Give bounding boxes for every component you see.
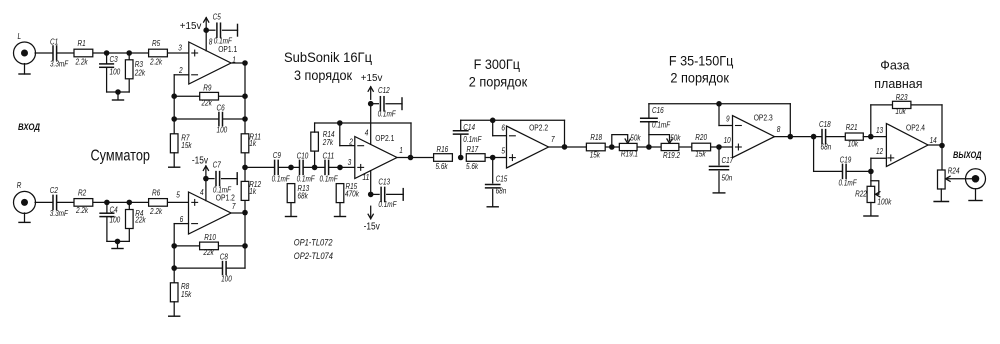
svg-text:2 порядок: 2 порядок [670,70,729,86]
svg-text:10k: 10k [848,140,859,149]
svg-text:22k: 22k [135,216,147,225]
svg-text:OP1-TL072: OP1-TL072 [294,238,333,248]
svg-text:15k: 15k [181,141,192,150]
svg-text:2 порядок: 2 порядок [469,73,528,89]
svg-text:C3: C3 [110,55,119,64]
svg-text:0.1mF: 0.1mF [378,200,397,209]
svg-text:F 35-150Гц: F 35-150Гц [669,53,733,69]
svg-text:0.1mF: 0.1mF [463,135,482,144]
svg-text:100: 100 [217,125,228,134]
svg-text:1k: 1k [249,187,257,196]
svg-text:68n: 68n [821,142,832,151]
svg-text:R: R [17,181,22,190]
svg-text:C17: C17 [722,156,734,165]
svg-text:15k: 15k [181,290,192,299]
svg-text:R5: R5 [152,39,161,48]
svg-text:OP2.3: OP2.3 [754,113,773,122]
svg-text:22k: 22k [134,69,146,78]
svg-text:6: 6 [501,124,505,133]
svg-text:2.2k: 2.2k [75,58,89,67]
svg-text:C14: C14 [463,123,475,132]
svg-text:5.6k: 5.6k [436,162,449,171]
svg-text:C16: C16 [652,106,664,115]
svg-text:0.1mF: 0.1mF [297,174,316,183]
svg-text:R22: R22 [855,190,867,199]
svg-text:9: 9 [726,115,730,124]
svg-text:12: 12 [876,147,884,156]
svg-text:50k: 50k [630,134,641,143]
svg-text:0.1mF: 0.1mF [272,174,291,183]
svg-text:100: 100 [221,275,232,284]
svg-text:470k: 470k [345,190,360,199]
svg-text:50k: 50k [670,134,681,143]
svg-text:22k: 22k [201,99,213,108]
svg-text:ВХОД: ВХОД [18,122,40,132]
svg-text:4: 4 [200,188,204,197]
svg-text:13: 13 [876,126,884,135]
svg-text:OP1.1: OP1.1 [218,45,237,54]
svg-text:C1: C1 [50,38,58,47]
svg-text:R19.2: R19.2 [663,151,681,160]
svg-text:2.2k: 2.2k [149,58,163,67]
svg-text:R6: R6 [152,189,161,198]
svg-text:R21: R21 [846,123,858,132]
svg-text:R20: R20 [695,133,707,142]
svg-text:0.1mF: 0.1mF [378,110,397,119]
svg-text:0.1mF: 0.1mF [320,174,339,183]
svg-text:5: 5 [176,191,180,200]
svg-text:+15v: +15v [361,73,383,84]
svg-text:R16: R16 [437,145,449,154]
svg-text:8: 8 [777,125,781,134]
svg-text:50n: 50n [722,174,733,183]
svg-text:8: 8 [209,37,213,46]
svg-text:4: 4 [365,129,369,138]
svg-text:3 порядок: 3 порядок [294,67,353,83]
svg-text:C2: C2 [50,186,59,195]
svg-text:R18: R18 [590,133,602,142]
svg-text:R1: R1 [78,39,86,48]
svg-text:2.2k: 2.2k [75,206,89,215]
svg-text:5: 5 [501,147,505,156]
svg-text:7: 7 [551,135,555,144]
svg-text:1: 1 [399,146,403,155]
svg-text:C10: C10 [297,152,309,161]
svg-text:15k: 15k [695,150,706,159]
svg-text:0.1mF: 0.1mF [213,186,232,195]
svg-text:100k: 100k [877,198,892,207]
svg-text:1k: 1k [249,139,257,148]
svg-text:L: L [18,32,22,41]
svg-text:-15v: -15v [364,221,380,232]
svg-text:0.1mF: 0.1mF [652,121,671,130]
svg-text:ВЫХОД: ВЫХОД [953,150,982,160]
svg-text:OP2-TL074: OP2-TL074 [294,251,333,261]
svg-text:C8: C8 [220,253,229,262]
svg-text:C6: C6 [217,104,226,113]
svg-text:68k: 68k [298,192,309,201]
svg-text:SubSonik 16Гц: SubSonik 16Гц [284,49,372,65]
svg-text:3: 3 [348,158,352,167]
svg-text:27k: 27k [322,138,334,147]
svg-text:C18: C18 [819,120,831,129]
svg-text:3.3mF: 3.3mF [50,60,69,69]
svg-text:0.1mF: 0.1mF [214,37,233,46]
svg-text:OP2.1: OP2.1 [375,134,394,143]
svg-text:5.6k: 5.6k [466,162,479,171]
svg-text:3.3mF: 3.3mF [50,209,69,218]
svg-text:R19.1: R19.1 [621,150,638,159]
svg-text:C13: C13 [378,177,390,186]
svg-text:-15v: -15v [192,155,208,166]
svg-text:C5: C5 [213,13,222,22]
svg-text:0.1mF: 0.1mF [839,179,858,188]
svg-text:C4: C4 [110,205,119,214]
svg-text:R9: R9 [203,84,212,93]
svg-text:100: 100 [110,68,121,77]
svg-text:C15: C15 [496,174,508,183]
svg-text:7: 7 [232,202,236,211]
svg-text:15k: 15k [590,150,601,159]
svg-text:OP2.2: OP2.2 [529,124,548,133]
svg-text:+15v: +15v [180,21,202,32]
svg-text:R2: R2 [78,189,87,198]
svg-text:F 300Гц: F 300Гц [474,56,520,72]
svg-text:2.2k: 2.2k [149,207,163,216]
svg-text:100: 100 [110,216,121,225]
svg-text:11: 11 [362,173,369,182]
svg-text:C7: C7 [213,161,222,170]
svg-text:14: 14 [930,136,938,145]
svg-text:C19: C19 [840,156,852,165]
svg-text:C9: C9 [273,151,282,160]
svg-text:10k: 10k [895,107,906,116]
svg-text:6: 6 [180,215,184,224]
svg-text:OP2.4: OP2.4 [906,124,925,133]
svg-text:C11: C11 [323,152,335,161]
svg-text:10: 10 [724,136,732,145]
svg-text:68n: 68n [496,186,507,195]
svg-text:C12: C12 [378,86,390,95]
svg-text:Сумматор: Сумматор [91,148,151,165]
svg-text:R24: R24 [948,166,960,175]
svg-text:R10: R10 [204,233,216,242]
svg-text:2: 2 [178,66,183,75]
svg-text:22k: 22k [203,248,215,257]
svg-text:R17: R17 [467,145,479,154]
svg-text:Фаза: Фаза [880,57,910,72]
svg-text:2: 2 [348,137,353,146]
svg-text:R23: R23 [896,93,908,102]
svg-text:плавная: плавная [874,76,922,91]
svg-text:3: 3 [178,43,182,52]
